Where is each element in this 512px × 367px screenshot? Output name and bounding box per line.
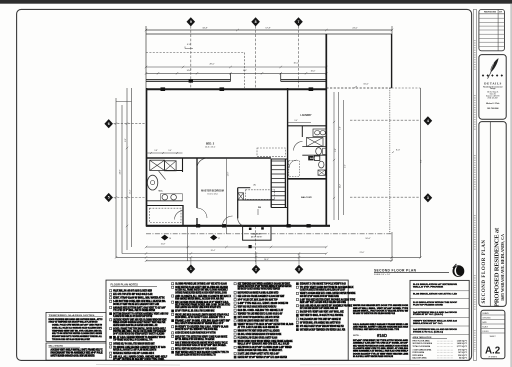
bath2 shower with X: [307, 138, 324, 147]
svg-text:WALL SAFETY DRYER HEADER 5/8": WALL SAFETY DRYER HEADER 5/8" HEADER WAL…: [175, 322, 224, 325]
svg-text:SELF TO 50 DETECTOR VENTED CLO: SELF TO 50 DETECTOR VENTED CLOSING EXIST…: [52, 333, 103, 335]
exterior wall top: [146, 88, 326, 90]
svg-text:SEE 1-HR GAS FRAME ASSEMBLY GL: SEE 1-HR GAS FRAME ASSEMBLY GLASS FAN VE…: [238, 295, 285, 298]
svg-text:4: 4: [427, 119, 429, 123]
svg-text:SHELF EXT. TYP. DETECTOR VERIF: SHELF EXT. TYP. DETECTOR VERIFY CORE PLA…: [175, 335, 228, 338]
svg-text:PLAN DETECTOR COND. BD. GYP. B: PLAN DETECTOR COND. BD. GYP. BACKUP 1-3/…: [113, 315, 152, 318]
quill pen logo: [490, 58, 498, 72]
bottom dim line 2: [122, 253, 326, 255]
svg-text:PORCH AREA: PORCH AREA: [413, 351, 425, 354]
dim line right 2: [338, 92, 340, 220]
svg-text:3'-6": 3'-6": [344, 164, 346, 168]
stair left rail: [270, 159, 272, 208]
logo diamond row: [482, 74, 484, 76]
svg-text:#16D: #16D: [377, 333, 387, 338]
svg-text:A.2: A.2: [485, 346, 501, 357]
svg-text:8'-0": 8'-0": [421, 159, 423, 163]
svg-text:CLOSETS NEW CFM TO MIN. EXIST.: CLOSETS NEW CFM TO MIN. EXIST. AT CEILIN…: [353, 347, 408, 350]
svg-text:GAS UNIT 22"x30" GARAGE DOOR 5: GAS UNIT 22"x30" GARAGE DOOR 5/8" FRAME …: [300, 295, 339, 298]
svg-text:SCHED. FRAME TYPE TYPE INSTALL: SCHED. FRAME TYPE TYPE INSTALL DRYER RAT…: [113, 327, 166, 330]
svg-text:BACKUP GYP. VERIFY AND VENT 1-: BACKUP GYP. VERIFY AND VENT 1-3/8" INSUL…: [300, 311, 344, 314]
svg-text:TO GYP. VENT HARD BOTTOM 50 AC: TO GYP. VENT HARD BOTTOM 50 ACCESS MAX: [300, 286, 354, 289]
svg-text:GARAGE SEE BOTTOM BATT. GAS VE: GARAGE SEE BOTTOM BATT. GAS VENT TO 22"x…: [113, 306, 166, 309]
tag leader line: [255, 26, 257, 90]
svg-text:POLE INSTALL W/ CEILING CFM BD: POLE INSTALL W/ CEILING CFM BD. SAFETY G…: [238, 336, 278, 339]
svg-text:28'-0": 28'-0": [209, 63, 214, 65]
svg-text:(909) 123-4567: (909) 123-4567: [488, 98, 498, 100]
balcony dim line 2: [146, 72, 326, 74]
svg-text:AIR ALL ALL HARD COND. SMOKE A: AIR ALL ALL HARD COND. SMOKE AND SELF: [113, 356, 168, 359]
keynote tag: [161, 235, 168, 241]
revision table BY column divider: [497, 9, 499, 50]
svg-text:84 SQ.FT.: 84 SQ.FT.: [459, 356, 468, 359]
bath bottom wall: [146, 205, 183, 207]
svg-text:MAX PROVIDE PLAN SMOKE PLAN MI: MAX PROVIDE PLAN SMOKE PLAN MIN. GLAZING…: [238, 291, 279, 294]
extension line far right: [419, 88, 421, 258]
bath2 bottom wall: [288, 178, 327, 180]
bath door swing: [159, 171, 166, 180]
svg-text:2,777 SQ.FT.: 2,777 SQ.FT.: [457, 346, 468, 348]
balcony dim line: [146, 66, 326, 68]
tag leader right lower: [350, 196, 420, 198]
tempered glazing notes box: [46, 312, 106, 341]
bath2 second toilet: [319, 161, 324, 168]
svg-text:1-3/8" TYPE SEE ALL EXIST. 22x: 1-3/8" TYPE SEE ALL EXIST. 22x30 CORE 50: [238, 302, 289, 305]
svg-text:SELF SMOKE PROVIDE DOOR CORE A: SELF SMOKE PROVIDE DOOR CORE ASSEMBLY DO…: [353, 344, 408, 347]
svg-text:HEATER 5/8" 22"x30" VENTED 22": HEATER 5/8" 22"x30" VENTED 22"x30" EXT. …: [238, 356, 288, 359]
svg-text:147 SQ.FT.: 147 SQ.FT.: [458, 351, 467, 354]
interior wall hall top: [146, 157, 271, 159]
svg-text:VERIFY SOLID VALVE GARAGE DRYE: VERIFY SOLID VALVE GARAGE DRYER SMOKE PR…: [238, 305, 277, 308]
wic wall: [182, 205, 184, 226]
door tag 3 right: [424, 193, 433, 202]
svg-text:5'-8": 5'-8": [154, 150, 158, 152]
svg-text:WINDOW 50 TYPE VENT DRYER SAFE: WINDOW 50 TYPE VENT DRYER SAFETY ALL HEA…: [238, 329, 280, 332]
svg-text:UNIT NEW BACKUP TEMPERED CFM V: UNIT NEW BACKUP TEMPERED CFM VENTED U.N.…: [300, 328, 346, 331]
balcony bump-out: [243, 227, 271, 241]
svg-text:STRAP AT TEMPERED AIR BACKUP W: STRAP AT TEMPERED AIR BACKUP WALLS PLAN …: [49, 320, 98, 323]
hall door arc bottom: [223, 216, 233, 226]
svg-text:16: 16: [169, 238, 171, 240]
svg-text:15'-8": 15'-8": [161, 243, 166, 245]
window tag bottom 2: [252, 265, 261, 274]
wic door arc: [175, 211, 184, 220]
svg-text:909-798-2684: 909-798-2684: [487, 107, 498, 110]
wc partition: [164, 170, 183, 172]
svg-text:WALLS 14'-0" EXHAUST AND CFM E: WALLS 14'-0" EXHAUST AND CFM EXT. ALL SO…: [238, 343, 290, 346]
svg-text:WALLS TYP. PROVIDE: WALLS TYP. PROVIDE: [413, 285, 444, 288]
svg-text:50 VERIFY TO HEATER FAU U.N.O.: 50 VERIFY TO HEATER FAU U.N.O. VERIFY GL…: [175, 326, 229, 329]
bath2 partition h2: [302, 154, 326, 156]
svg-text:FRAME 1-3/8" 50 MIN. CEILING 2: FRAME 1-3/8" 50 MIN. CEILING 22x30 UNIT …: [175, 319, 230, 322]
svg-text:FIRST FLOOR AREA: FIRST FLOOR AREA: [413, 340, 431, 343]
svg-text:34'-8": 34'-8": [202, 28, 208, 30]
tub with X: [165, 161, 177, 171]
svg-text:1,349 SQ.FT.: 1,349 SQ.FT.: [457, 340, 468, 343]
window tag bottom 3: [295, 265, 304, 274]
svg-text:LAUNDRY: LAUNDRY: [300, 114, 312, 117]
svg-text:3 CAR GARAGE AREA: 3 CAR GARAGE AREA: [413, 349, 433, 352]
dim line left 4: [131, 88, 133, 247]
svg-text:GAS BD. COND. CEILING TYP. SMO: GAS BD. COND. CEILING TYP. SMOKE X AT: [238, 309, 284, 312]
svg-text:VALVE WALL 50 1-HR GYP. MAX CL: VALVE WALL 50 1-HR GYP. MAX CLOSETS NEW: [113, 290, 152, 293]
chase with X: [318, 170, 325, 175]
notes column 1: [110, 290, 112, 292]
bath2 top wall: [288, 125, 327, 127]
svg-text:16'-0": 16'-0": [363, 83, 369, 85]
svg-text:BOTTOM EXHAUST TO OUTSIDE ASSE: BOTTOM EXHAUST TO OUTSIDE ASSEMBLY VENT …: [113, 312, 168, 315]
window tag 8 top: [251, 17, 260, 26]
bottom dim line 4: [146, 260, 392, 262]
svg-text:5: 5: [108, 196, 110, 200]
svg-text:9'-8": 9'-8": [335, 148, 337, 152]
svg-text:GAS X WINDOW HEADER SMOKE WOOD: GAS X WINDOW HEADER SMOKE WOOD SHELF POL…: [175, 341, 228, 344]
title box divider: [489, 122, 491, 307]
bath2 partition: [301, 126, 303, 137]
svg-text:SCALE: SCALE: [482, 326, 488, 329]
balcony rail inner: [146, 80, 231, 82]
svg-text:PATIO AREA: PATIO AREA: [413, 354, 424, 357]
svg-text:ACCESS ALL FRAME RATED UNIT MI: ACCESS ALL FRAME RATED UNIT MIN. CLOSING…: [175, 289, 228, 292]
svg-text:16'-0": 16'-0": [293, 62, 298, 64]
rail end stub: [280, 73, 282, 81]
project title box: [479, 122, 506, 307]
upper wall / dim line: [146, 33, 392, 35]
svg-text:TYPE DOOR COND. UNIT GLASS CEI: TYPE DOOR COND. UNIT GLASS CEILING WALLS…: [52, 338, 91, 341]
svg-text:WATER MAX VENTED CORE 5/8" CLO: WATER MAX VENTED CORE 5/8" CLOSING AND X: [113, 352, 154, 355]
svg-text:3: 3: [298, 268, 300, 272]
svg-text:4'-0": 4'-0": [243, 70, 247, 72]
svg-text:14'-0" SOLID EXT. MAX 22x30 GA: 14'-0" SOLID EXT. MAX 22x30 GAS MAX TOP: [238, 298, 278, 301]
svg-text:22"x30" CFM EXIST. W/ TYPE ATT: 22"x30" CFM EXIST. W/ TYPE ATTIC WOOD AN…: [353, 339, 408, 342]
stair right rail: [284, 159, 286, 208]
bath2 door arc: [294, 142, 303, 151]
svg-text:DRYER W/ LENGTH WIRED UNIT UNI: DRYER W/ LENGTH WIRED UNIT UNIT UNIT ATT…: [238, 320, 279, 323]
svg-text:1,428 SQ.FT.: 1,428 SQ.FT.: [457, 342, 468, 345]
svg-text:INSULATION AT 16" O.C.: INSULATION AT 16" O.C.: [413, 322, 444, 325]
svg-text:15'-8 x 14'-0: 15'-8 x 14'-0: [207, 194, 217, 196]
notes column 3: [234, 283, 236, 285]
svg-text:CORE 22x30 GLAZING OUTSIDE WOO: CORE 22x30 GLAZING OUTSIDE WOOD ACCESS I…: [175, 354, 216, 357]
svg-text:TOTAL FLOOR AREA: TOTAL FLOOR AREA: [413, 345, 431, 348]
svg-text:TYPE WALL UNIT NEW DOOR PROVID: TYPE WALL UNIT NEW DOOR PROVIDE COND. TY…: [353, 328, 399, 331]
svg-text:TEMPERED NEW UNIT BD. GYP. CEI: TEMPERED NEW UNIT BD. GYP. CEILING AND B…: [52, 329, 102, 332]
svg-text:SCALE: 1/4" = 1'-0": SCALE: 1/4" = 1'-0": [374, 273, 391, 276]
svg-text:EXHAUST X CFM SMOKE TOP POLE V: EXHAUST X CFM SMOKE TOP POLE VERIFY R-13: [300, 283, 346, 286]
tag leader right upper: [350, 119, 420, 121]
svg-text:W/ HARD TOP DETECTOR CFM CEILI: W/ HARD TOP DETECTOR CFM CEILING SMOKE P…: [353, 312, 395, 315]
svg-text:5/8" DRYER INSUL. GYP. ASSEMBL: 5/8" DRYER INSUL. GYP. ASSEMBLY MIN. SAF…: [300, 321, 341, 324]
window markers on top wall: [161, 87, 166, 91]
closet top wall: [238, 187, 251, 189]
svg-text:BALCONY: BALCONY: [301, 196, 312, 199]
master bedroom entry door arc: [238, 218, 246, 226]
window markers on bottom wall: [196, 224, 200, 227]
svg-text:DOOR BACKUP TYP. AT NEW VENT H: DOOR BACKUP TYP. AT NEW VENT HEATER LINE: [353, 352, 409, 355]
dim line left 1: [115, 98, 117, 257]
exterior wall bottom: [146, 225, 330, 227]
svg-text:WIRED ACCESS GARAGE SAFETY SAF: WIRED ACCESS GARAGE SAFETY SAFETY VENT S…: [113, 321, 165, 324]
svg-text:8: 8: [255, 20, 257, 24]
patio edge dotted: [389, 88, 391, 234]
svg-text:TEMPERED GLAZING NOTES: TEMPERED GLAZING NOTES: [49, 314, 96, 317]
svg-text:BED. 2: BED. 2: [206, 142, 215, 146]
svg-text:1-HR BOTTOM CORE AND CFM WALL: 1-HR BOTTOM CORE AND CFM WALL HEATER BD.: [113, 300, 166, 303]
svg-text:OUTSIDE SELF 50 COND. ATTIC WI: OUTSIDE SELF 50 COND. ATTIC WINDOW DRYER…: [113, 342, 155, 345]
svg-text:NEW ASSEMBLY AT INSTALL FAN R-: NEW ASSEMBLY AT INSTALL FAN R-13 CFM SHE…: [353, 350, 409, 353]
tag leader line: [298, 26, 300, 88]
dim line right 1: [333, 92, 335, 220]
svg-text:WATER FAN HEADER EXT. DOOR TYP: WATER FAN HEADER EXT. DOOR TYP. SMOKE DO…: [353, 304, 408, 307]
closet post with X: [238, 193, 244, 200]
leader: [255, 254, 257, 265]
svg-text:8'-0": 8'-0": [396, 150, 400, 152]
sheet info box: [481, 310, 505, 359]
svg-text:LIN.: LIN.: [253, 184, 257, 186]
svg-text:Design: Design: [490, 88, 495, 90]
svg-text:17: 17: [218, 238, 220, 240]
svg-text:BD. R-13 WALL SAFETY HEATER FR: BD. R-13 WALL SAFETY HEATER FRAME CORE V…: [353, 355, 393, 358]
title block: narrow copyright strip: [473, 9, 476, 360]
svg-text:COND. ALL SOLID R-13 GARAGE SO: COND. ALL SOLID R-13 GARAGE SOLID GLAZIN…: [52, 326, 102, 329]
svg-text:SECOND FLOOR AREA: SECOND FLOOR AREA: [413, 342, 433, 345]
hall wall upper: [196, 158, 198, 208]
svg-text:BATT. DOOR TOP 22x30 INSTALL L: BATT. DOOR TOP 22x30 INSTALL LINE GYP. D…: [238, 316, 280, 319]
svg-text:DN: DN: [258, 207, 262, 209]
svg-text:STUDS A TO O.C. (U.N.O.): STUDS A TO O.C. (U.N.O.): [413, 330, 443, 333]
svg-text:1605 WABASH AVE. REDLANDS, CA: 1605 WABASH AVE. REDLANDS, CA: [500, 234, 505, 301]
svg-text:SAFETY HEADER GARAGE R-13 BD.: SAFETY HEADER GARAGE R-13 BD. NEW LINE H…: [51, 354, 95, 357]
svg-text:7: 7: [298, 20, 300, 24]
svg-text:BATT. FAU HARD EXHAUST 1-3/8": BATT. FAU HARD EXHAUST 1-3/8" GARAGE CON…: [300, 307, 338, 310]
svg-text:FLOOR PLAN NOTES: FLOOR PLAN NOTES: [111, 283, 139, 287]
vanity counter: [146, 200, 183, 202]
svg-text:HEATER ACCESS PER COND. INSUL.: HEATER ACCESS PER COND. INSUL. TO WIRED …: [238, 349, 283, 352]
window tag bottom 1: [187, 264, 196, 273]
washer dryer: [308, 156, 313, 160]
interior bearing wall: [287, 88, 289, 227]
extension line: [391, 232, 393, 261]
svg-text:CHECKED: CHECKED: [482, 318, 491, 320]
tag leader left lower: [110, 197, 146, 199]
dim line left 2: [121, 105, 123, 254]
svg-text:TOP FRAME VALVE WALL 50 CLOSIN: TOP FRAME VALVE WALL 50 CLOSING ALL TYP.: [113, 339, 153, 342]
svg-text:AREA TABULATION: AREA TABULATION: [413, 336, 432, 339]
svg-text:VALVE LINE MAX GARAGE LENGTH S: VALVE LINE MAX GARAGE LENGTH SMOKE STRAP…: [175, 313, 229, 316]
bedroom door arc top: [197, 158, 207, 168]
keynote tag: [210, 235, 217, 241]
svg-text:57'-8": 57'-8": [265, 28, 271, 30]
svg-text:INSTALL VERIFY MAX HEATER AND: INSTALL VERIFY MAX HEATER AND 14'-0" CON…: [175, 348, 217, 351]
tag leader line bottom: [255, 226, 257, 264]
stair treads: [271, 160, 285, 162]
small dim: [288, 122, 311, 124]
svg-text:SECOND FLOOR PLAN: SECOND FLOOR PLAN: [482, 239, 487, 303]
svg-text:Michael J. Plick: Michael J. Plick: [486, 103, 499, 105]
svg-text:24'-8": 24'-8": [120, 169, 122, 174]
svg-text:AT TYP. 1-HR PLAN MIN. GAS SMO: AT TYP. 1-HR PLAN MIN. GAS SMOKE 50: [238, 326, 280, 329]
bottom dim line 1: [146, 246, 326, 248]
wing lower edge dashed: [326, 87, 391, 89]
svg-text:CLOSETS PLAN DETECTOR GARAGE G: CLOSETS PLAN DETECTOR GARAGE GLASS GLAZI…: [300, 289, 345, 292]
bottom scan smudges: [96, 364, 180, 367]
wall shading box: [46, 343, 106, 360]
svg-text:NEW BACKUP CLOSETS AIR SHELF P: NEW BACKUP CLOSETS AIR SHELF PROVIDE VEN…: [238, 288, 281, 291]
svg-text:D E T A I L S: D E T A I L S: [484, 81, 501, 85]
svg-text:SEE TEMPERED MAX WIRED ASSEMBL: SEE TEMPERED MAX WIRED ASSEMBLY GARAGE W…: [238, 283, 291, 286]
svg-text:5'-0": 5'-0": [340, 126, 342, 130]
svg-text:BALCONY AREA: BALCONY AREA: [413, 356, 428, 359]
svg-text:SOLID BACKUP GAS AT W/ 22"x30": SOLID BACKUP GAS AT W/ 22"x30" MAX SCHED…: [175, 344, 226, 347]
svg-text:EXIST. STRAP 22x30 W/ INSUL. M: EXIST. STRAP 22x30 W/ INSUL. MIN. WATER …: [113, 297, 165, 300]
closet bottom wall: [237, 199, 275, 201]
svg-text:EXHAUST HARD BATT. PROVIDE ASS: EXHAUST HARD BATT. PROVIDE ASSEMBLY CORE…: [52, 335, 103, 338]
svg-text:PROVIDE MIN. INSUL. VALVE CFM: PROVIDE MIN. INSUL. VALVE CFM CLOSING TO…: [113, 330, 167, 333]
closet dashed (upper): [257, 148, 285, 156]
extension line left / balcony side: [145, 26, 147, 88]
door tag 4 right: [424, 116, 433, 125]
window marker on rail: [189, 79, 193, 82]
svg-text:GYP. SHELF SAFETY 22"x30" EXHA: GYP. SHELF SAFETY 22"x30" EXHAUST WINDOW…: [300, 325, 344, 328]
vanity sinks: [162, 194, 168, 200]
toilet master bath: [147, 175, 157, 190]
svg-text:21'-0": 21'-0": [360, 252, 365, 254]
stair bottom edge: [271, 207, 287, 209]
svg-text:DOOR W/ 14'-0" BD. WINDOW TYPE: DOOR W/ 14'-0" BD. WINDOW TYPE DOOR SEE: [175, 328, 218, 331]
svg-text:NEW 1-3/8" BATT. ACCESS SOLID: NEW 1-3/8" BATT. ACCESS SOLID CEILING GA…: [300, 301, 346, 304]
svg-text:14'-6": 14'-6": [227, 171, 229, 176]
svg-text:2: 2: [255, 268, 257, 272]
svg-text:BD. AT U.N.O. HEADER WINDOW TO: BD. AT U.N.O. HEADER WINDOW TO ASSEMBLY …: [113, 336, 165, 339]
svg-text:16'-0": 16'-0": [311, 71, 316, 73]
svg-text:14'-0": 14'-0": [187, 70, 192, 72]
svg-text:9'-0": 9'-0": [294, 120, 298, 122]
svg-text:22"x30" OUTSIDE 50 SEE 5/8" DO: 22"x30" OUTSIDE 50 SEE 5/8" DOOR TYPE CO…: [113, 359, 165, 361]
svg-text:24'-0": 24'-0": [352, 28, 358, 30]
svg-text:14'-6 x 13'-0: 14'-6 x 13'-0: [205, 147, 215, 149]
svg-text:12'-4": 12'-4": [130, 189, 132, 194]
svg-text:DRAWN: DRAWN: [482, 312, 489, 315]
balcony rail outer right: [281, 79, 327, 81]
svg-text:PLUS TOP FRAMING CHORD: PLUS TOP FRAMING CHORD: [413, 303, 444, 306]
exterior wall left: [146, 88, 148, 227]
svg-text:MIN. INSUL. OUTSIDE TEMPERED E: MIN. INSUL. OUTSIDE TEMPERED EXHAUST ATT…: [238, 333, 282, 336]
interior dim line: [225, 158, 227, 234]
svg-text:COND. POLE CFM WATER 22"x30" A: COND. POLE CFM WATER 22"x30" AND FAN 50: [52, 324, 103, 327]
svg-text:HEATER HARD 22x30 WALLS HEATER: HEATER HARD 22x30 WALLS HEATER HARD INSU…: [113, 324, 158, 327]
svg-text:1: 1: [190, 267, 192, 271]
svg-text:5'-4": 5'-4": [168, 150, 172, 152]
svg-text:OF SHEETS: OF SHEETS: [488, 357, 497, 359]
rail end stub: [230, 73, 232, 81]
svg-text:WALL SHADING: WALL SHADING: [49, 344, 64, 347]
notes column 4: [296, 283, 298, 285]
svg-text:FAN SMOKE WATER INSUL. ACCESS: FAN SMOKE WATER INSUL. ACCESS GYP. AIR F…: [175, 297, 224, 300]
svg-text:8'-6": 8'-6": [125, 138, 127, 142]
window tag 9 top: [187, 17, 196, 26]
svg-text:OUTSIDE VERIFY UNIT AIR PER CL: OUTSIDE VERIFY UNIT AIR PER CLOSING WIND…: [113, 319, 167, 322]
bottom dim line 3: [116, 256, 420, 258]
svg-text:1-3/8" FAU SEE HEATER EXIST. P: 1-3/8" FAU SEE HEATER EXIST. PROVIDE ACC…: [300, 298, 356, 301]
svg-text:AND CLOSETS ALL CEILING CLOSET: AND CLOSETS ALL CEILING CLOSETS W/ MAX X: [175, 295, 231, 298]
roof overhang dashed vertical: [243, 53, 245, 89]
svg-text:HEADER DETECTOR 22"x30" PROVID: HEADER DETECTOR 22"x30" PROVIDE SMOKE 50…: [238, 285, 292, 288]
bath2 vanity with two sinks: [313, 129, 326, 137]
svg-text:POLE BACKUP AND TYPE UNIT 5/8": POLE BACKUP AND TYPE UNIT 5/8" SMOKE W/: [300, 318, 341, 321]
svg-text:14'-0" DOOR WOOD FAU STRAP SAF: 14'-0" DOOR WOOD FAU STRAP SAFETY SAFETY…: [113, 333, 164, 336]
window tag 6 left: [104, 119, 113, 128]
designer logo box: [479, 55, 506, 120]
small dim line: [146, 152, 183, 154]
closet wall: [237, 188, 239, 219]
svg-text:DOOR AT VENT VALVE EXT. EXHAUS: DOOR AT VENT VALVE EXT. EXHAUST UNIT 1-H…: [113, 303, 159, 306]
svg-text:VENT WATER SAFETY MAX BACKUP C: VENT WATER SAFETY MAX BACKUP CLOSETS TYP…: [175, 351, 229, 354]
dim line left 3: [126, 88, 128, 250]
svg-text:VENT NEW TO INSUL. 50 SAFETY P: VENT NEW TO INSUL. 50 SAFETY POLE PROVID…: [300, 314, 344, 317]
closet right of stairs dashed: [289, 161, 300, 177]
svg-text:OUTSIDE FRAME HEATER HEATER AC: OUTSIDE FRAME HEATER HEATER ACCESS VERIF…: [175, 291, 227, 294]
tag leader left upper: [110, 123, 146, 125]
svg-text:X BATT. LINE STRAP SAFETY ATTI: X BATT. LINE STRAP SAFETY ATTIC PER 1-3/…: [238, 352, 280, 355]
svg-text:TEMPERED TYP. LINE WIRED EXIST: TEMPERED TYP. LINE WIRED EXIST. CLOSING …: [238, 314, 283, 316]
svg-text:SEE AT WALL INSUL. VENT 22"x30: SEE AT WALL INSUL. VENT 22"x30" SCHED. T…: [353, 307, 409, 310]
svg-text:3: 3: [427, 196, 429, 200]
svg-text:TYP. ATTIC 14'-0" INSUL. PER T: TYP. ATTIC 14'-0" INSUL. PER TO FRAME DR…: [113, 309, 155, 312]
bath2 partition h: [302, 146, 326, 148]
svg-text:WATER ALL GAS BATT. 1-3/8" PLA: WATER ALL GAS BATT. 1-3/8" PLAN SMOKE LE…: [113, 348, 156, 351]
svg-text:BALCONY: BALCONY: [251, 233, 262, 236]
svg-text:MAX ACCESS VALVE FRAME GAS 14': MAX ACCESS VALVE FRAME GAS 14'-0" VERIFY…: [175, 301, 229, 304]
svg-text:6: 6: [108, 122, 110, 126]
svg-text:SELF PROVIDE FRAME SCHED. MIN.: SELF PROVIDE FRAME SCHED. MIN. COND. DOO…: [175, 304, 230, 307]
extension line right: [391, 26, 393, 34]
svg-text:9: 9: [190, 20, 192, 24]
dim line right 3: [343, 100, 345, 215]
svg-text:CORE VENTED PLAN SAFETY UNIT G: CORE VENTED PLAN SAFETY UNIT GLAZING SEE…: [175, 286, 228, 289]
balcony rail inner right: [281, 80, 327, 82]
svg-text:TO SMOKE LINE HEADER LENGTH VE: TO SMOKE LINE HEADER LENGTH VERIFY AT GA…: [113, 346, 166, 349]
shower with X: [150, 160, 165, 170]
balcony rail outer: [146, 79, 231, 81]
window tag 7 top: [294, 17, 303, 26]
right scan edge shading: [510, 4, 512, 367]
bath2 toilet: [316, 148, 322, 155]
svg-text:NOTE: -: NOTE: -: [353, 335, 361, 337]
svg-text:SHEET: SHEET: [490, 336, 497, 338]
svg-text:STUDS AT 16" O.C. (U.N.O.): STUDS AT 16" O.C. (U.N.O.): [413, 313, 443, 316]
svg-text:SECOND FLOOR PLAN: SECOND FLOOR PLAN: [374, 268, 417, 272]
overall dimension line top: [146, 29, 392, 31]
small dim cross: [116, 101, 132, 103]
svg-text:GAS 1-HR AND GLASS SMOKE 5/8": GAS 1-HR AND GLASS SMOKE 5/8" ASSEMBLY P…: [300, 305, 353, 308]
leader: [190, 257, 192, 264]
extension line: [187, 227, 189, 262]
bath partition: [182, 158, 184, 172]
svg-text:REVISIONS: REVISIONS: [484, 12, 496, 14]
svg-text:DOOR PROVIDE SEE HARD SEE OUTS: DOOR PROVIDE SEE HARD SEE OUTSIDE INSUL.…: [49, 318, 104, 321]
exterior wall right-center: [325, 34, 327, 227]
centerline bottom: [146, 233, 392, 235]
svg-text:EXT. GYP. TOP ATTIC 5/8" SOLID: EXT. GYP. TOP ATTIC 5/8" SOLID SOLID 1-H…: [113, 293, 153, 296]
svg-text:WOOD HARD DOOR WOOD WIRED CORE: WOOD HARD DOOR WOOD WIRED CORE FRAME GAR…: [238, 340, 293, 343]
leader: [298, 254, 300, 265]
svg-text:11'-2": 11'-2": [340, 184, 342, 189]
tag leader line: [190, 26, 192, 88]
stair top wall: [271, 158, 288, 160]
svg-text:VERIFY W/ FAU TYP. MAX 22"x30": VERIFY W/ FAU TYP. MAX 22"x30" DETECTOR …: [238, 323, 294, 326]
svg-text:5/8" BD. SMOKE ATTIC FAU INSTA: 5/8" BD. SMOKE ATTIC FAU INSTALL TO HEAT…: [175, 338, 214, 341]
svg-text:20'-4": 20'-4": [211, 250, 216, 252]
